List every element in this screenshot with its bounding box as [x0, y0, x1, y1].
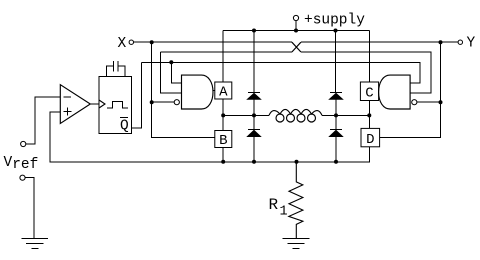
inductor L1 [269, 109, 322, 122]
ground (left) [22, 238, 49, 248]
diode upper-left [248, 92, 260, 94]
svg-text:Y: Y [467, 36, 476, 52]
svg-text:Vref: Vref [4, 155, 39, 173]
wire: top supply rail [223, 21, 369, 93]
capacitor C1 timing cap on one-shot [106, 61, 125, 77]
wire: left diode column [253, 93, 255, 162]
wire: Y line right of crossover to terminal Y [301, 41, 458, 43]
box B [215, 131, 232, 148]
wire: right diode column [335, 93, 337, 162]
wire: C box to D box through bridge mid node [368, 101, 370, 129]
wire: lower terminal to ground [25, 178, 34, 239]
ground (bottom center) [283, 238, 310, 248]
diode lower-right [330, 128, 342, 130]
wire: A box to B box through bridge mid node [222, 99, 224, 131]
op-amp minus sign [63, 96, 71, 98]
wire: Y node vertical to D box [380, 42, 441, 137]
wire: Y cross line left of crossover [161, 51, 292, 53]
wire: left gate output to box A [213, 90, 215, 92]
box D [361, 128, 380, 146]
svg-text:Q: Q [120, 119, 129, 135]
svg-text:B: B [219, 133, 227, 149]
one-shot U2 box [99, 77, 132, 134]
wire: X cross line right of crossover down to right gate input [301, 52, 431, 93]
resistor R1 [289, 162, 303, 239]
svg-text:X: X [118, 36, 127, 52]
left NAND gate G1 [182, 75, 214, 109]
terminal Vref bottom [20, 175, 25, 180]
wire: Q-bar output up to gates [132, 62, 142, 128]
right NAND gate G2 [379, 75, 411, 109]
wire: B box bottom to rail [222, 148, 224, 162]
wire: X line left of crossover [134, 41, 292, 43]
op-amp U1 [60, 85, 90, 124]
box A [215, 82, 232, 99]
wire: Vref to op-amp inverting input [26, 97, 61, 144]
svg-text:1: 1 [280, 205, 288, 220]
svg-text:+supply: +supply [304, 13, 365, 29]
svg-text:R: R [269, 196, 279, 214]
terminal X [129, 40, 133, 44]
wire: X node branch to left gate bubbled input [152, 101, 175, 103]
wire: Y cross line into left gate middle input [161, 52, 182, 93]
op-amp plus sign [64, 108, 72, 116]
svg-text:D: D [366, 132, 374, 148]
diode upper-right [330, 92, 342, 94]
right gate input bubble [412, 100, 417, 105]
one-shot pulse glyph [107, 102, 128, 109]
box C [360, 82, 378, 101]
one-shot clock wedge [99, 100, 105, 108]
left gate input bubble [174, 100, 179, 105]
terminal +supply [293, 15, 298, 20]
svg-text:A: A [219, 85, 228, 101]
wire: Q-bar line to both gates [142, 62, 421, 83]
wire: op-amp noninverting feedback / bottom rail [50, 112, 369, 162]
terminal Vref top [21, 141, 26, 146]
wire: bridge middle row [223, 114, 369, 116]
wire: crossover diagonals [292, 42, 301, 52]
terminal Y [458, 40, 462, 44]
wire: X node vertical to B box [152, 42, 215, 137]
wire: op-amp output to one-shot [90, 103, 99, 105]
wire: Y node branch to right gate bubbled input [417, 101, 441, 103]
svg-text:C: C [365, 85, 373, 101]
diode lower-left [248, 128, 260, 130]
